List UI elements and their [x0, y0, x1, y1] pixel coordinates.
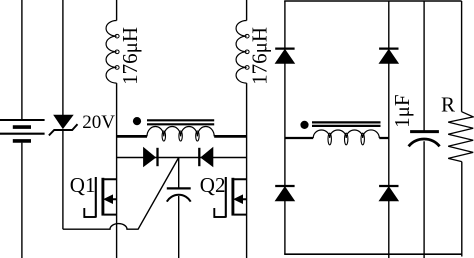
svg-text:Q2: Q2 — [200, 173, 226, 197]
svg-text:176μH: 176μH — [247, 27, 271, 85]
svg-text:1μF: 1μF — [390, 94, 414, 127]
svg-text:20V: 20V — [82, 112, 115, 133]
svg-text:Q1: Q1 — [70, 173, 96, 197]
svg-text:R: R — [441, 93, 455, 117]
svg-text:176μH: 176μH — [118, 27, 142, 85]
